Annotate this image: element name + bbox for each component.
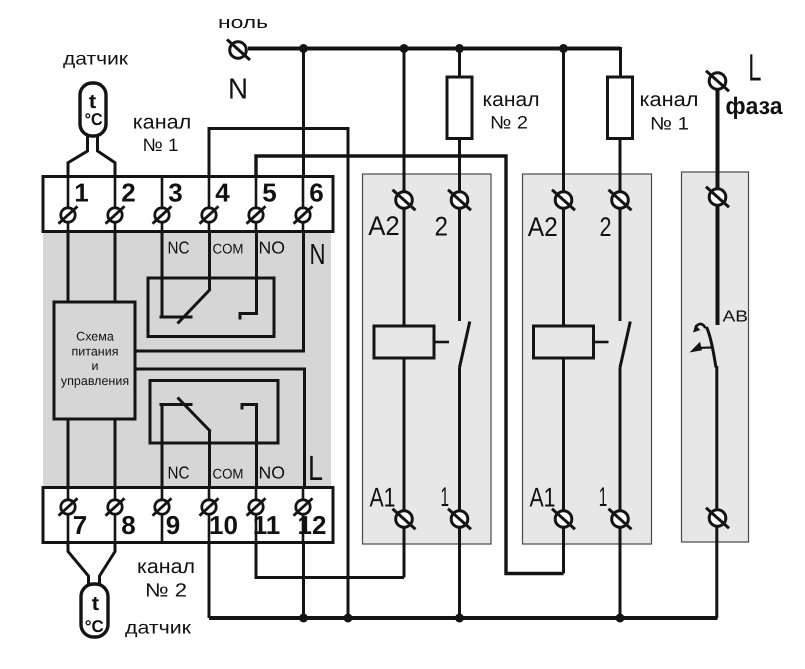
- svg-text:2: 2: [600, 212, 612, 242]
- svg-text:4: 4: [215, 178, 230, 208]
- svg-text:Схема: Схема: [76, 330, 114, 344]
- svg-text:NC: NC: [168, 463, 190, 483]
- svg-text:t: t: [92, 593, 100, 615]
- svg-text:фаза: фаза: [726, 93, 784, 120]
- svg-text:№ 1: № 1: [650, 114, 689, 134]
- svg-text:A1: A1: [530, 482, 556, 512]
- svg-text:датчик: датчик: [63, 49, 128, 69]
- svg-text:11: 11: [253, 510, 281, 540]
- svg-text:12: 12: [298, 510, 327, 540]
- svg-text:питания: питания: [72, 345, 119, 359]
- svg-text:ноль: ноль: [218, 13, 268, 32]
- svg-text:канал: канал: [137, 556, 195, 578]
- svg-text:2: 2: [121, 178, 135, 208]
- svg-text:NO: NO: [259, 463, 286, 483]
- svg-text:канал: канал: [133, 112, 192, 134]
- svg-text:1: 1: [74, 178, 88, 208]
- svg-text:NO: NO: [259, 238, 286, 258]
- svg-text:A2: A2: [368, 211, 400, 241]
- svg-text:датчик: датчик: [125, 618, 191, 638]
- svg-text:A2: A2: [528, 212, 558, 242]
- svg-text:COM: COM: [213, 241, 244, 257]
- svg-text:№ 1: № 1: [143, 135, 179, 155]
- svg-text:°C: °C: [85, 110, 103, 129]
- svg-text:10: 10: [209, 510, 238, 540]
- svg-text:канал: канал: [483, 89, 540, 111]
- svg-text:6: 6: [309, 178, 323, 208]
- svg-text:1: 1: [599, 482, 608, 512]
- svg-text:№ 2: № 2: [145, 581, 187, 602]
- svg-text:7: 7: [73, 510, 87, 540]
- svg-text:N: N: [310, 239, 326, 271]
- svg-text:N: N: [228, 74, 248, 106]
- svg-text:2: 2: [434, 212, 448, 242]
- svg-text:3: 3: [168, 178, 182, 208]
- svg-text:NC: NC: [168, 238, 190, 258]
- svg-text:№ 2: № 2: [490, 113, 528, 133]
- svg-text:1: 1: [440, 482, 449, 512]
- svg-text:°C: °C: [85, 617, 104, 636]
- svg-text:канал: канал: [640, 89, 699, 111]
- svg-text:5: 5: [262, 178, 276, 208]
- svg-text:8: 8: [121, 510, 135, 540]
- svg-text:A1: A1: [370, 482, 396, 512]
- svg-text:L: L: [748, 47, 761, 89]
- svg-text:9: 9: [166, 510, 180, 540]
- svg-text:COM: COM: [213, 466, 244, 482]
- svg-text:АВ: АВ: [723, 308, 749, 325]
- svg-text:L: L: [308, 449, 323, 488]
- svg-text:управления: управления: [61, 374, 129, 388]
- svg-text:и: и: [92, 359, 99, 373]
